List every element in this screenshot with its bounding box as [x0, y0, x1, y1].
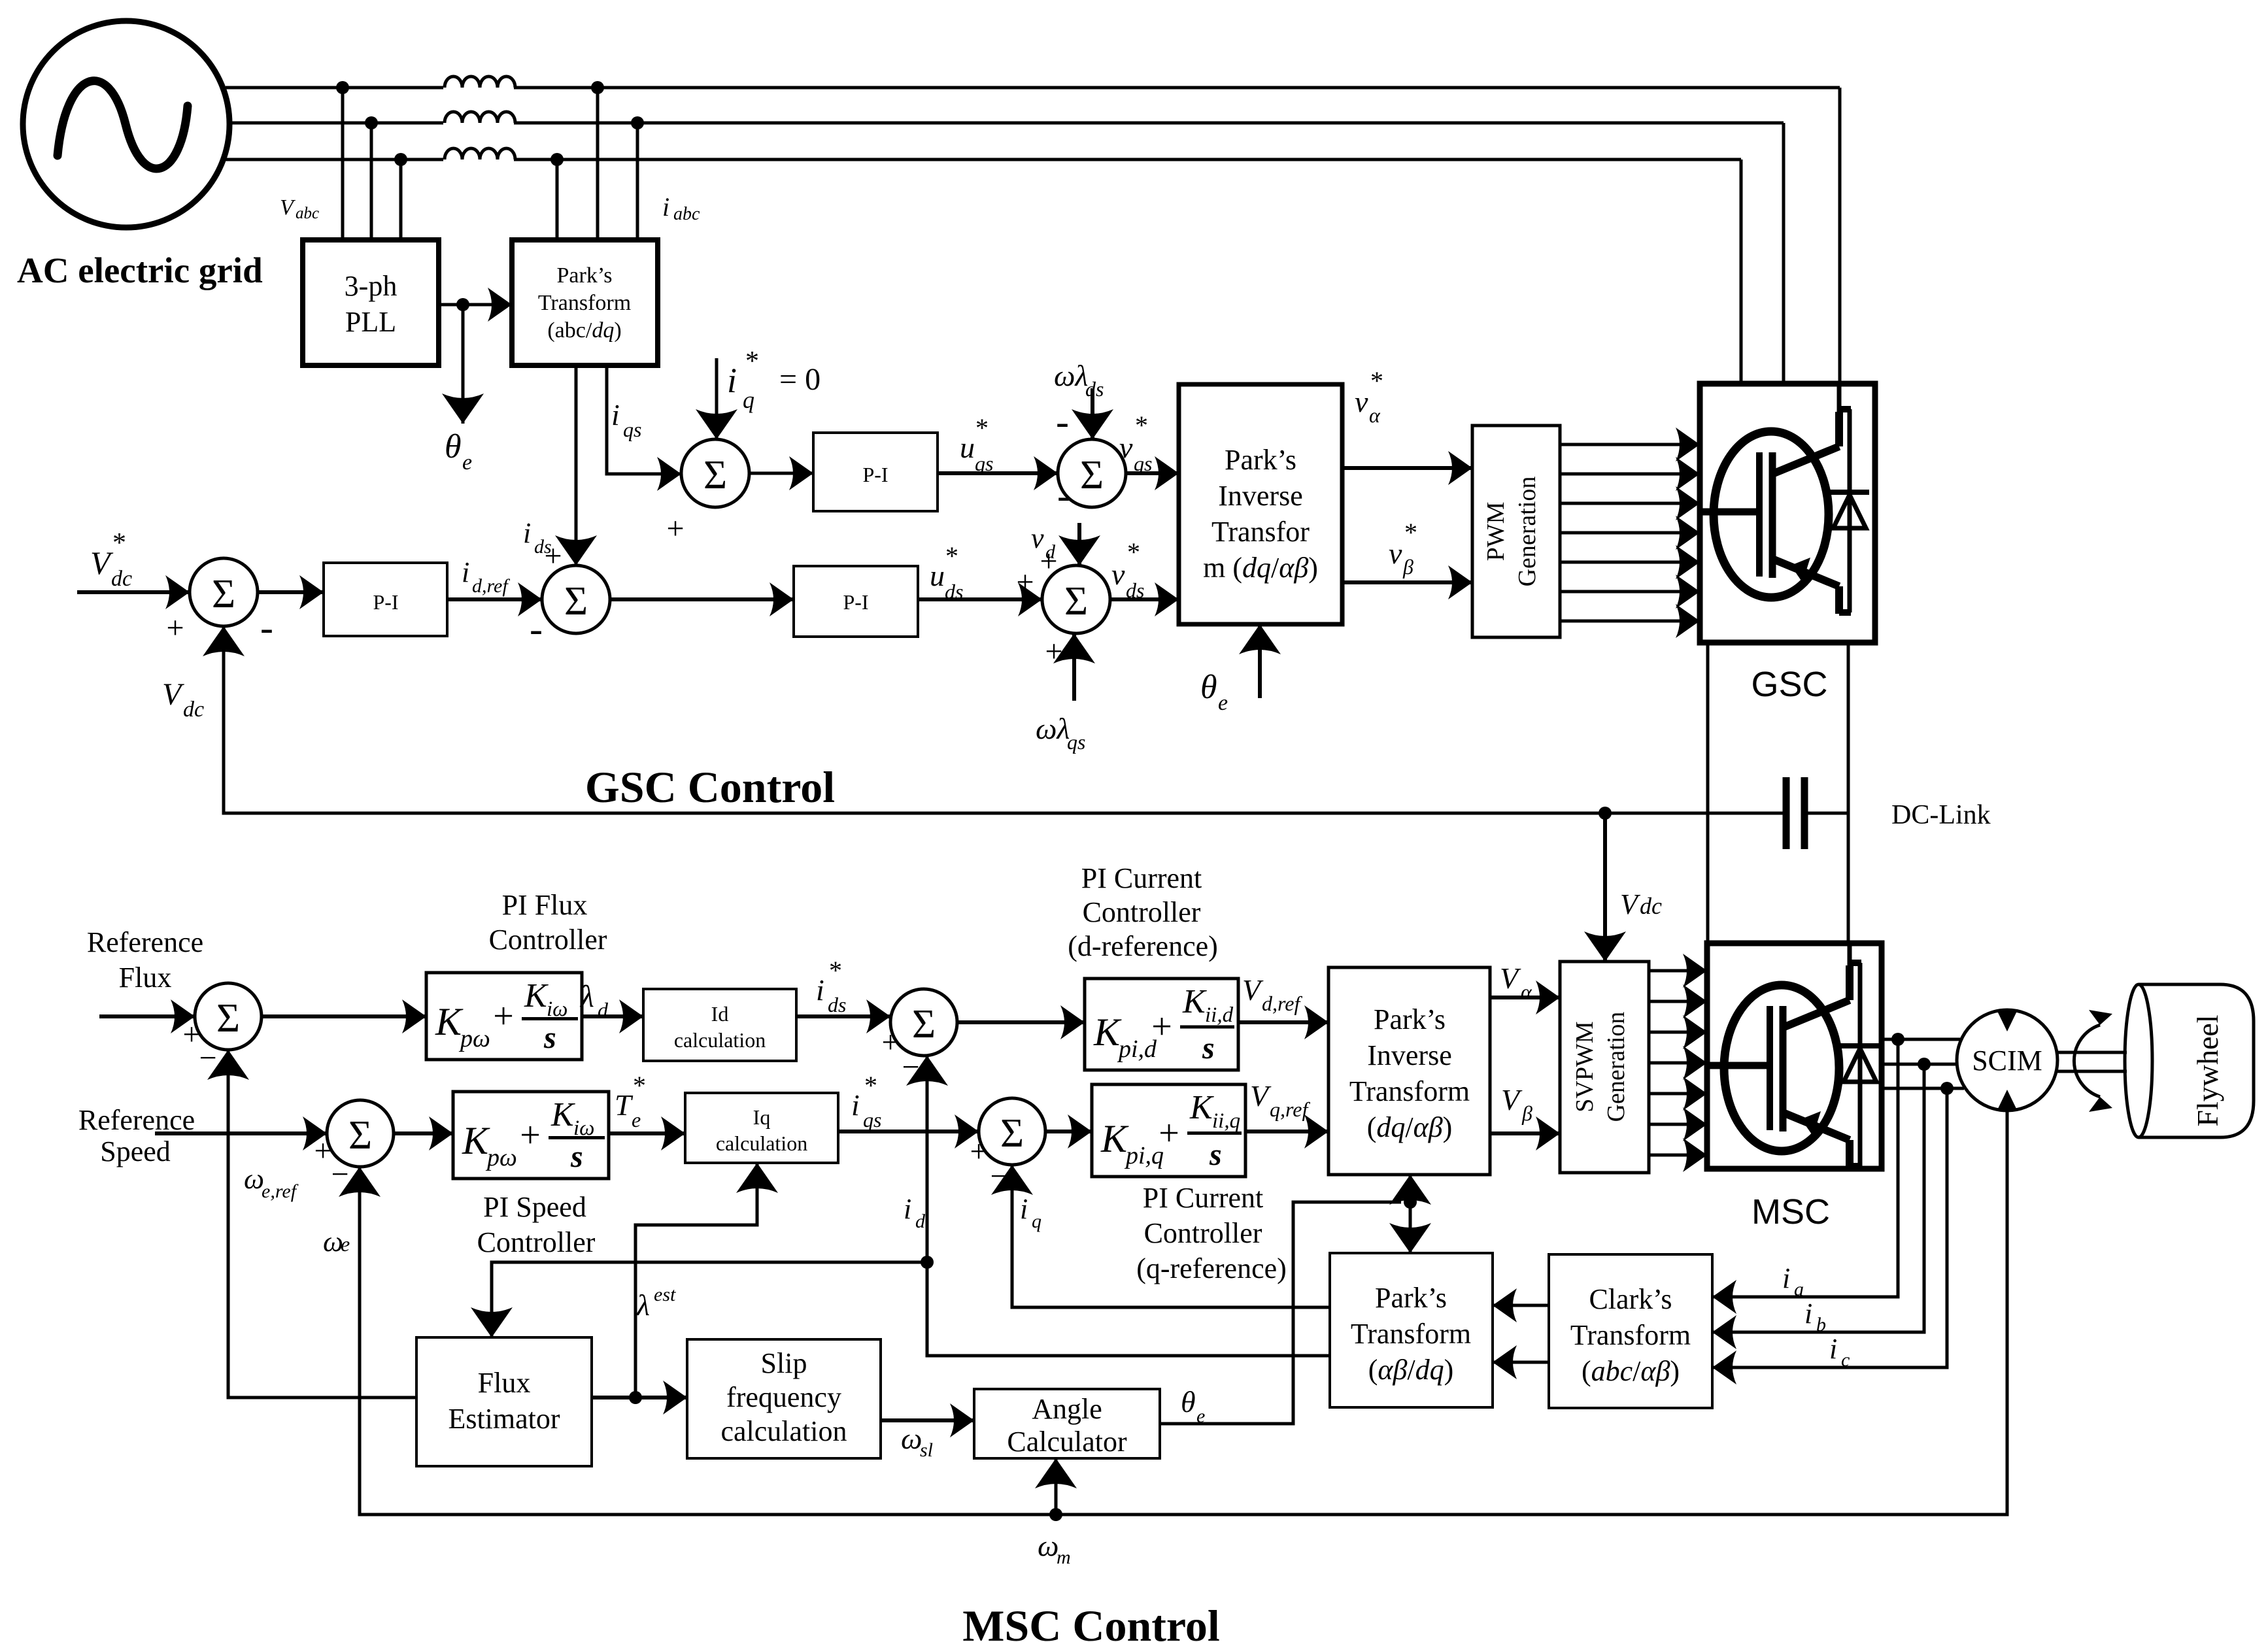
- svg-text:d,ref: d,ref: [472, 575, 510, 597]
- wire flux sum to Kpw: [262, 1014, 426, 1018]
- svg-text:α: α: [1369, 403, 1381, 427]
- svg-text:*: *: [633, 1071, 646, 1100]
- label plus ds3 left: [1016, 565, 1034, 599]
- label minus speed sum: [331, 1157, 348, 1192]
- svg-text:e: e: [341, 1232, 350, 1256]
- svg-text:i: i: [1782, 1262, 1790, 1294]
- svg-text:K: K: [1093, 1011, 1122, 1054]
- svg-text:*: *: [112, 528, 126, 558]
- svg-text:calculation: calculation: [720, 1415, 847, 1447]
- AC grid source symbol: [23, 21, 229, 227]
- wire vqs* to Park Inverse: [1126, 471, 1179, 475]
- svg-text:−: −: [990, 1159, 1007, 1194]
- svg-text:i: i: [816, 973, 824, 1007]
- wire stator a: [1882, 1038, 1961, 1041]
- svg-text:Park’s: Park’s: [1374, 1003, 1446, 1035]
- svg-text:Inverse: Inverse: [1218, 480, 1303, 512]
- wire flux est output: [592, 1396, 687, 1399]
- wire phase A horizontal: [226, 86, 1840, 90]
- wire id to flux estimator: [492, 1262, 927, 1337]
- wire ids* to d sum: [796, 1014, 890, 1018]
- wire phase C vertical: [1740, 159, 1743, 382]
- svg-text:*: *: [829, 956, 842, 985]
- svg-text:d: d: [915, 1211, 926, 1232]
- svg-text:*: *: [745, 346, 759, 377]
- wire P-I qs out: [938, 471, 1058, 475]
- label PI Speed Controller: [477, 1191, 596, 1258]
- wire reference speed input: [155, 1131, 327, 1135]
- wire lambda est to Iq calc: [635, 1163, 757, 1398]
- wire i_b sense: [1712, 1064, 1924, 1332]
- label MSC Control: [962, 1601, 1220, 1642]
- svg-text:-: -: [260, 606, 273, 649]
- label Flywheel: [2191, 1014, 2224, 1126]
- svg-text:+: +: [166, 611, 184, 645]
- svg-text:λ: λ: [579, 979, 594, 1014]
- svg-text:-: -: [530, 607, 543, 650]
- summing junction Vdc: [190, 558, 258, 626]
- svg-text:Σ: Σ: [1064, 579, 1088, 624]
- svg-text:-: -: [1056, 400, 1069, 443]
- label i_d: [904, 1193, 926, 1232]
- svg-text:GSC Control: GSC Control: [585, 762, 835, 812]
- wire V_alpha to SVPWM: [1490, 996, 1560, 999]
- shaft lines: [2055, 1052, 2127, 1071]
- wire omega-lambda-ds arrow: [1091, 388, 1094, 439]
- svg-text:Transfor: Transfor: [1211, 516, 1310, 548]
- svg-text:Inverse: Inverse: [1367, 1039, 1452, 1071]
- block PI current q Kpiq: [1092, 1084, 1245, 1177]
- label plus ds3 bottom: [1045, 634, 1062, 669]
- block Park's Inverse Transform GSC: [1179, 384, 1342, 624]
- wire PLL to Park's Transform: [439, 303, 512, 307]
- svg-text:(d-reference): (d-reference): [1068, 930, 1218, 962]
- wire ds sum to P-I2: [610, 597, 794, 601]
- wire omega-lambda-qs arrow: [1072, 633, 1076, 701]
- label minus ds-ref sum: [530, 607, 543, 650]
- inductor phase A: [443, 76, 515, 91]
- svg-text:Transform: Transform: [1570, 1319, 1691, 1351]
- wire P-I ds out: [918, 597, 1042, 601]
- wire i_ds: [575, 365, 578, 565]
- svg-text:Transform: Transform: [1349, 1075, 1470, 1107]
- svg-text:+: +: [666, 511, 684, 546]
- svg-text:calculation: calculation: [716, 1131, 807, 1155]
- svg-text:i: i: [462, 556, 469, 588]
- label plus ds3 topleft: [1040, 544, 1057, 578]
- svg-text:qs: qs: [1134, 452, 1152, 475]
- svg-text:Calculator: Calculator: [1007, 1426, 1127, 1458]
- wire i_c sense: [1712, 1088, 1947, 1367]
- svg-text:Id: Id: [711, 1002, 729, 1026]
- svg-text:Reference: Reference: [78, 1104, 195, 1136]
- label T*e: [615, 1071, 646, 1131]
- label i_qs: [611, 398, 641, 441]
- IGBT GSC: [1700, 384, 1869, 614]
- wire Vdref to Park Inverse MSC: [1238, 1020, 1329, 1024]
- svg-text:(dq/αβ): (dq/αβ): [1367, 1111, 1453, 1143]
- label omega_e_ref: [244, 1163, 299, 1202]
- wire q sum to Kpiq: [1045, 1130, 1092, 1133]
- label iq* = 0: [727, 346, 821, 413]
- wire tap Vc: [399, 159, 403, 240]
- svg-text:est: est: [654, 1284, 676, 1305]
- svg-text:Angle: Angle: [1032, 1393, 1102, 1425]
- wire i_qs: [607, 365, 681, 474]
- svg-text:v: v: [1355, 385, 1368, 418]
- svg-text:Reference: Reference: [87, 926, 203, 958]
- svg-text:abc: abc: [296, 205, 319, 222]
- IGBT MSC: [1707, 943, 1880, 1167]
- svg-text:q: q: [1032, 1211, 1041, 1232]
- svg-text:(abc/αβ): (abc/αβ): [1582, 1355, 1680, 1387]
- svg-text:λ: λ: [635, 1288, 650, 1322]
- label omega-lambda-ds: [1054, 359, 1104, 401]
- svg-text:−: −: [199, 1041, 216, 1075]
- svg-text:e: e: [632, 1108, 641, 1131]
- wire id_ref: [447, 597, 542, 601]
- label plus d sum: [881, 1025, 899, 1060]
- label PI Current Controller q: [1136, 1182, 1287, 1284]
- label plus qs sum: [666, 511, 684, 546]
- svg-text:Σ: Σ: [1080, 453, 1104, 497]
- svg-text:*: *: [864, 1071, 877, 1100]
- capacitor DC-Link: [1786, 777, 1848, 849]
- svg-text:v: v: [1389, 537, 1402, 570]
- svg-text:AC electric grid: AC electric grid: [17, 250, 263, 290]
- svg-text:*: *: [1127, 537, 1140, 567]
- block Iq calculation: [685, 1093, 838, 1163]
- label plus q sum: [970, 1134, 987, 1169]
- svg-text:v: v: [1119, 431, 1133, 464]
- label theta_e GSC: [1200, 669, 1228, 715]
- svg-text:Estimator: Estimator: [448, 1403, 560, 1435]
- svg-text:+: +: [1016, 565, 1034, 599]
- svg-text:Generation: Generation: [1514, 477, 1541, 587]
- svg-text:K: K: [1182, 983, 1207, 1020]
- svg-text:ω: ω: [1038, 1529, 1058, 1562]
- svg-text:β: β: [1402, 555, 1413, 578]
- summing junction q current: [979, 1098, 1045, 1165]
- label AC electric grid: [17, 250, 263, 290]
- label V_beta: [1501, 1083, 1532, 1125]
- summing junction speed: [327, 1100, 394, 1167]
- wire DC bus left: [1706, 643, 1710, 943]
- svg-text:Park’s: Park’s: [1375, 1282, 1447, 1314]
- svg-text:Controller: Controller: [1083, 896, 1201, 928]
- svg-text:K: K: [1189, 1089, 1214, 1126]
- label Vabc: [280, 195, 319, 222]
- label id_ref: [462, 556, 510, 597]
- label plus flux sum: [182, 1017, 200, 1052]
- label V_d,ref: [1242, 973, 1302, 1015]
- svg-text:θ: θ: [1200, 669, 1217, 706]
- svg-text:*: *: [1404, 518, 1417, 547]
- wire tap Va: [341, 88, 345, 240]
- svg-text:Flux: Flux: [119, 962, 172, 994]
- wire i_beta: [1493, 1361, 1549, 1364]
- wire theta_e down to Park Transform: [1409, 1202, 1412, 1253]
- svg-text:i: i: [1020, 1193, 1028, 1225]
- junction stator c: [1940, 1082, 1954, 1095]
- block 3-ph PLL: [303, 240, 439, 365]
- svg-text:MSC: MSC: [1752, 1192, 1830, 1231]
- svg-text:pω: pω: [458, 1025, 490, 1052]
- svg-text:K: K: [524, 977, 549, 1014]
- svg-text:MSC Control: MSC Control: [962, 1601, 1220, 1642]
- junction id lambda: [921, 1256, 934, 1269]
- svg-text:v: v: [1111, 558, 1125, 591]
- junction Vabc phase B: [365, 116, 378, 129]
- svg-text:P-I: P-I: [373, 590, 398, 614]
- svg-text:Clark’s: Clark’s: [1589, 1283, 1672, 1315]
- svg-text:ωλ: ωλ: [1054, 359, 1088, 392]
- inductor phase B: [443, 112, 515, 126]
- junction stator a: [1891, 1033, 1904, 1046]
- svg-text:PI Current: PI Current: [1081, 862, 1202, 894]
- svg-text:qs: qs: [1067, 730, 1085, 754]
- svg-text:Σ: Σ: [1000, 1111, 1024, 1156]
- label minus d sum: [902, 1050, 919, 1084]
- svg-text:PI Speed: PI Speed: [483, 1191, 586, 1223]
- svg-text:a: a: [1794, 1279, 1804, 1300]
- wire theta_e down arrow: [462, 305, 465, 424]
- rotation arrow: [2074, 1010, 2112, 1112]
- svg-text:u: u: [960, 431, 975, 464]
- label DC-Link: [1891, 800, 1991, 830]
- label lambda_est: [635, 1284, 676, 1322]
- svg-text:qs: qs: [623, 418, 641, 441]
- svg-text:e: e: [1196, 1405, 1205, 1427]
- svg-text:+: +: [970, 1134, 987, 1169]
- svg-text:K: K: [435, 1000, 464, 1043]
- svg-text:ds: ds: [1126, 578, 1144, 602]
- svg-text:α: α: [1521, 980, 1532, 1003]
- svg-text:ds: ds: [828, 993, 846, 1016]
- svg-text:PLL: PLL: [345, 306, 396, 338]
- svg-text:-: -: [1057, 474, 1070, 517]
- label V*dc: [90, 528, 132, 591]
- wire Vdc* input: [77, 590, 190, 594]
- label minus Vdc sum: [260, 606, 273, 649]
- svg-text:sl: sl: [920, 1439, 933, 1461]
- summing junction qs: [681, 439, 749, 507]
- wire theta_e from angle calc: [1160, 1202, 1401, 1424]
- label omega-lambda-qs: [1036, 712, 1085, 754]
- label minus q sum: [990, 1159, 1007, 1194]
- svg-text:*: *: [945, 541, 958, 571]
- svg-text:Controller: Controller: [477, 1226, 596, 1258]
- label i_a: [1782, 1262, 1804, 1300]
- label u*ds: [930, 541, 963, 603]
- svg-text:m: m: [1057, 1547, 1071, 1568]
- svg-text:*: *: [1135, 410, 1148, 440]
- svg-text:Controller: Controller: [489, 924, 607, 956]
- junction Vdc tap: [1599, 807, 1612, 820]
- label MSC: [1752, 1192, 1830, 1231]
- svg-text:i: i: [1829, 1333, 1837, 1365]
- svg-text:*: *: [1370, 366, 1383, 395]
- svg-text:T: T: [615, 1088, 634, 1122]
- wire omega_m to angle calc: [1055, 1458, 1058, 1515]
- wire d sum to Kpid: [957, 1020, 1085, 1024]
- wire phase B vertical: [1782, 123, 1786, 382]
- label Reference Speed: [78, 1104, 195, 1167]
- svg-text:K: K: [550, 1096, 575, 1133]
- svg-text:Σ: Σ: [348, 1113, 372, 1158]
- wire lambda_d to Id calc: [582, 1014, 643, 1018]
- wire omega_sl: [881, 1418, 974, 1422]
- label i_q: [1020, 1193, 1041, 1232]
- svg-text:(αβ/dq): (αβ/dq): [1368, 1354, 1454, 1386]
- svg-text:dc: dc: [183, 697, 204, 722]
- wire phase A vertical: [1838, 88, 1842, 382]
- label plus Vdc sum: [166, 611, 184, 645]
- svg-text:Slip: Slip: [761, 1347, 807, 1379]
- svg-text:Σ: Σ: [912, 1002, 936, 1047]
- svg-text:u: u: [930, 559, 945, 592]
- block P-I qs: [813, 433, 938, 511]
- label v*qs: [1119, 410, 1152, 475]
- svg-text:Transform: Transform: [1351, 1318, 1471, 1350]
- flywheel: [2125, 984, 2254, 1137]
- wire theta_e to Park Inverse: [1258, 624, 1262, 698]
- summing junction d current: [890, 989, 957, 1056]
- svg-text:= 0: = 0: [779, 362, 821, 397]
- svg-text:Flywheel: Flywheel: [2191, 1014, 2224, 1126]
- label iabc: [662, 192, 700, 224]
- summing junction flux: [195, 983, 262, 1050]
- svg-text:Speed: Speed: [100, 1135, 171, 1167]
- svg-text:i: i: [662, 192, 669, 222]
- svg-text:K: K: [462, 1119, 490, 1162]
- wire i_q: [1012, 1165, 1330, 1307]
- block MSC converter: [1707, 943, 1882, 1169]
- svg-text:Σ: Σ: [216, 996, 240, 1041]
- svg-text:s: s: [570, 1139, 583, 1174]
- wire Vdc sum to P-I: [258, 590, 324, 594]
- label GSC: [1751, 665, 1827, 704]
- label Vdc feedback: [162, 677, 204, 722]
- wire theta_e up to Park Inverse: [1409, 1175, 1412, 1202]
- svg-text:i: i: [611, 398, 620, 431]
- junction stator b: [1918, 1058, 1931, 1071]
- svg-text:i: i: [523, 517, 531, 549]
- wire omega_m feedback: [360, 1111, 2007, 1515]
- svg-text:qs: qs: [863, 1108, 881, 1131]
- svg-text:Σ: Σ: [212, 572, 235, 616]
- wire i_alpha: [1493, 1304, 1549, 1307]
- label plus speed sum: [314, 1133, 331, 1168]
- svg-text:pω: pω: [485, 1144, 517, 1171]
- svg-text:GSC: GSC: [1751, 665, 1827, 704]
- wire i_d: [927, 1056, 1330, 1356]
- block P-I ds: [794, 566, 918, 637]
- block Park's Inverse Transform MSC: [1329, 967, 1490, 1175]
- svg-text:Generation: Generation: [1602, 1012, 1630, 1122]
- junction Vabc phase C: [394, 153, 407, 166]
- svg-text:(q-reference): (q-reference): [1136, 1252, 1287, 1284]
- label omega_sl: [901, 1422, 933, 1461]
- label minus qs2 top: [1056, 400, 1069, 443]
- label u*qs: [960, 413, 993, 475]
- svg-text:ωλ: ωλ: [1036, 712, 1070, 745]
- wire Vdc to SVPWM: [1603, 813, 1607, 962]
- svg-text:dc: dc: [1640, 893, 1662, 919]
- junction iabc phase B: [631, 116, 644, 129]
- svg-text:DC-Link: DC-Link: [1891, 800, 1991, 830]
- machine SCIM: [1957, 1010, 2057, 1111]
- wire flux est feedback to flux sum: [228, 1050, 416, 1398]
- label minus flux sum: [199, 1041, 216, 1075]
- svg-text:V: V: [162, 677, 184, 712]
- svg-text:P-I: P-I: [843, 590, 868, 614]
- block Park's Transform ab/dq: [1330, 1253, 1493, 1407]
- label v*ds: [1111, 537, 1144, 602]
- junction theta_e: [456, 298, 469, 311]
- block Id calculation: [643, 989, 796, 1061]
- label i_ds: [523, 517, 552, 558]
- wire phase C horizontal: [226, 158, 1741, 161]
- label i*ds: [816, 956, 846, 1016]
- wire DC bus right: [1847, 643, 1850, 943]
- svg-text:e: e: [462, 450, 472, 475]
- svg-text:s: s: [543, 1020, 556, 1055]
- svg-text:β: β: [1521, 1101, 1532, 1125]
- block Clark's Transform: [1549, 1254, 1712, 1408]
- svg-text:i: i: [1804, 1298, 1812, 1330]
- label v_d: [1031, 522, 1056, 563]
- svg-text:PI Current: PI Current: [1143, 1182, 1264, 1214]
- svg-text:q: q: [743, 387, 754, 413]
- wire v_d arrow: [1077, 523, 1081, 565]
- label V_q,ref: [1250, 1079, 1310, 1121]
- label omega_m: [1038, 1529, 1071, 1568]
- block PI flux controller Kpw: [426, 973, 582, 1060]
- svg-text:SCIM: SCIM: [1972, 1045, 2042, 1077]
- label V_alpha: [1500, 962, 1532, 1003]
- label plus ds-ref sum: [544, 539, 562, 573]
- svg-text:Flux: Flux: [478, 1367, 531, 1399]
- block GSC converter: [1700, 384, 1875, 643]
- label Reference Flux: [87, 926, 203, 994]
- wire reference flux input: [99, 1014, 195, 1018]
- svg-text:3-ph: 3-ph: [345, 270, 398, 302]
- svg-text:s: s: [1202, 1031, 1215, 1065]
- block SVPWM Generation: [1560, 962, 1649, 1173]
- svg-text:V: V: [1242, 973, 1264, 1007]
- wire Vqref to Park Inverse MSC: [1245, 1130, 1329, 1133]
- wires PWM gate signals: [1560, 444, 1700, 621]
- svg-text:K: K: [1100, 1117, 1129, 1160]
- svg-text:θ: θ: [1181, 1385, 1196, 1418]
- junction Vabc phase A: [336, 81, 349, 94]
- junction theta_e msc: [1404, 1196, 1417, 1209]
- svg-text:Park’s: Park’s: [557, 263, 613, 288]
- svg-text:θ: θ: [445, 428, 462, 465]
- svg-text:(abc/dq): (abc/dq): [547, 318, 621, 343]
- label theta_e PLL: [445, 428, 472, 475]
- svg-text:i: i: [851, 1088, 860, 1122]
- svg-text:b: b: [1816, 1314, 1826, 1335]
- svg-text:V: V: [1250, 1079, 1272, 1113]
- wire phase B horizontal: [230, 122, 1784, 125]
- junction omega_m: [1049, 1508, 1062, 1521]
- svg-text:+: +: [493, 996, 514, 1037]
- svg-text:i: i: [904, 1193, 911, 1225]
- wires SVPWM gate signals: [1649, 971, 1707, 1155]
- label v*alpha: [1355, 366, 1383, 427]
